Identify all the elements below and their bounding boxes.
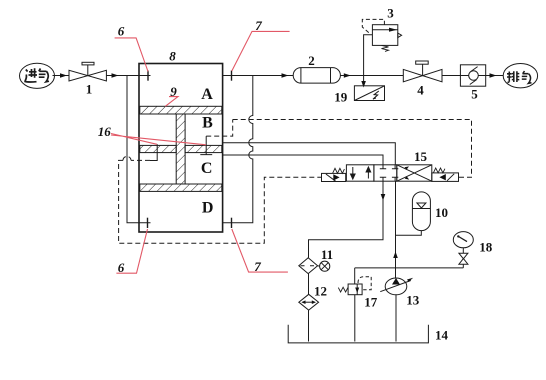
valve 15 left spring bbox=[333, 168, 345, 173]
wire filter11 to filter12 bbox=[308, 274, 310, 295]
piston rod bbox=[176, 114, 185, 184]
svg-text:A: A bbox=[201, 86, 213, 103]
svg-text:D: D bbox=[202, 200, 214, 217]
svg-text:4: 4 bbox=[417, 82, 424, 97]
port tick 7 bottom bbox=[231, 218, 233, 228]
svg-text:3: 3 bbox=[387, 5, 394, 20]
node intake ellipse 进气 bbox=[20, 63, 55, 88]
svg-text:7: 7 bbox=[255, 18, 262, 33]
wire junction up to relief 3 bbox=[364, 35, 373, 76]
leader 16 bbox=[111, 134, 206, 145]
svg-text:13: 13 bbox=[406, 292, 420, 307]
svg-text:7: 7 bbox=[254, 259, 261, 274]
leader 9 bbox=[165, 97, 178, 107]
wire capsule 2 to valve 4 bbox=[340, 75, 403, 77]
wire relief17 to tank bbox=[354, 295, 356, 342]
svg-text:5: 5 bbox=[471, 87, 478, 102]
leader 7 bottom bbox=[232, 229, 288, 272]
svg-text:6: 6 bbox=[118, 260, 125, 275]
wire cylinder top right to capsule 2 bbox=[223, 75, 294, 77]
wire valve1 to cylinder port bbox=[106, 75, 150, 77]
dashed pilot from right seal to top dashed line bbox=[206, 120, 233, 137]
check valve 5 bbox=[460, 65, 485, 86]
wire pump to tank bbox=[395, 295, 397, 342]
port tick 6 bottom bbox=[147, 218, 149, 228]
accumulator 10 bbox=[396, 192, 431, 235]
valve 15 right pilot box bbox=[432, 173, 459, 182]
seal 16 left sensing line bbox=[150, 144, 157, 160]
seal 16 right sensing line bbox=[200, 136, 212, 155]
wire filter12 to tank bbox=[308, 310, 310, 341]
red leader lines bbox=[111, 31, 290, 273]
svg-text:19: 19 bbox=[334, 90, 348, 105]
wire junction down to transducer 19 bbox=[363, 76, 365, 87]
filter 11 bbox=[299, 258, 318, 274]
valve 15 right spring bbox=[433, 168, 444, 173]
lower piston bbox=[140, 184, 222, 191]
svg-text:B: B bbox=[202, 114, 213, 131]
wire left branch down to chamber D bbox=[127, 76, 151, 223]
wire C lower port to valve 15 bbox=[223, 155, 383, 165]
cylinder 8 outer body bbox=[139, 64, 223, 233]
leader 7 top bbox=[232, 31, 290, 71]
valve 15 left pilot box bbox=[322, 173, 346, 181]
svg-text:8: 8 bbox=[169, 49, 176, 64]
wire right branch down to chamber D with hops bbox=[223, 76, 253, 223]
valve 15 body bbox=[346, 165, 431, 181]
gauge 18 bbox=[453, 232, 473, 268]
tank 14 bbox=[288, 325, 428, 343]
wire valve15 P down to pump bbox=[395, 181, 397, 278]
svg-text:10: 10 bbox=[435, 205, 448, 220]
svg-text:16: 16 bbox=[98, 124, 112, 139]
relief valve 3 bbox=[372, 25, 401, 52]
relief 17 spring bbox=[338, 287, 348, 292]
dashed pilot loop right (B to valve right pilot) bbox=[233, 120, 472, 178]
svg-text:9: 9 bbox=[170, 84, 177, 99]
filter 12 bbox=[299, 294, 319, 310]
relief valve 17 bbox=[348, 284, 362, 295]
svg-text:17: 17 bbox=[364, 294, 378, 309]
wire intake to valve 1 bbox=[53, 75, 70, 77]
relief 17 pilot dashed bbox=[358, 277, 371, 290]
valve 1 bbox=[69, 62, 106, 81]
wire check5 to exhaust bbox=[486, 75, 504, 77]
port tick 6 top bbox=[147, 71, 149, 81]
wire valve4 to check 5 bbox=[442, 75, 460, 77]
svg-text:C: C bbox=[201, 160, 213, 177]
leader 6 top bbox=[115, 38, 148, 72]
wire C upper port to valve 15 bbox=[223, 143, 396, 165]
capsule 2 bbox=[293, 68, 340, 84]
svg-text:11: 11 bbox=[321, 247, 333, 262]
svg-text:2: 2 bbox=[308, 53, 315, 68]
svg-text:6: 6 bbox=[118, 24, 125, 39]
transducer 19 bbox=[354, 86, 384, 101]
port tick 7 top bbox=[231, 71, 233, 81]
dashed pilot of valve 3 bbox=[362, 19, 384, 34]
svg-text:15: 15 bbox=[414, 149, 428, 164]
partition piston (16 seals) bbox=[140, 145, 222, 152]
wire valve15 T down to filters bbox=[309, 181, 384, 258]
svg-text:1: 1 bbox=[86, 82, 93, 97]
node exhaust ellipse 排气 bbox=[503, 63, 537, 87]
svg-text:14: 14 bbox=[435, 328, 449, 343]
wire to relief 17 bbox=[354, 268, 356, 284]
dashed pilot loop left (seal to valve left pilot) bbox=[119, 156, 322, 243]
leader 6 bottom bbox=[116, 229, 147, 273]
svg-text:12: 12 bbox=[314, 284, 327, 299]
clog indicator of 11 bbox=[318, 261, 330, 271]
piston 9 bbox=[140, 106, 222, 114]
wire gauge line bbox=[355, 267, 464, 269]
svg-text:18: 18 bbox=[479, 240, 493, 255]
valve 4 bbox=[403, 61, 442, 82]
pump 13 bbox=[380, 278, 413, 295]
